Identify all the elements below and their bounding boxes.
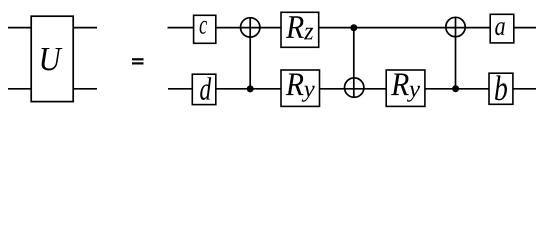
CNOT 1 control dot on qubit 2: [247, 85, 254, 92]
gate Rz box: [281, 12, 319, 47]
label R of Rz: [286, 16, 304, 38]
CNOT 3 vertical wire: [455, 17, 457, 88]
CNOT 2 vertical wire: [353, 28, 355, 98]
subscript y of first Ry: [302, 86, 315, 102]
wire: right circuit qubit 2: [168, 88, 536, 90]
subscript y of second Ry: [407, 86, 420, 102]
gate c box: [194, 15, 216, 43]
CNOT 2 target on qubit 2: [345, 78, 364, 97]
subscript z of Rz: [304, 28, 313, 40]
gate a box: [490, 14, 514, 43]
equals sign: [132, 58, 144, 64]
label b: [495, 75, 507, 100]
label c: [200, 21, 207, 34]
label R of second Ry: [391, 74, 409, 96]
gate d box: [192, 74, 216, 104]
label R of first Ry: [286, 74, 304, 96]
gate b box: [489, 73, 513, 104]
CNOT 3 target on qubit 1: [446, 17, 465, 36]
CNOT 3 control dot on qubit 2: [452, 85, 459, 92]
CNOT 1 target on qubit 1: [241, 18, 260, 37]
wire: left circuit qubit 1: [8, 27, 97, 29]
label U: [41, 48, 62, 70]
wire: right circuit qubit 1: [168, 27, 537, 29]
label d: [200, 77, 211, 100]
gate Ry box (first): [281, 70, 320, 106]
gate Ry box (second): [386, 70, 425, 106]
two-qubit gate U box: [31, 16, 73, 101]
wire: left circuit qubit 2: [8, 88, 97, 90]
label a: [495, 22, 505, 35]
CNOT 1 vertical wire: [249, 18, 251, 89]
CNOT 2 control dot on qubit 1: [350, 24, 357, 31]
